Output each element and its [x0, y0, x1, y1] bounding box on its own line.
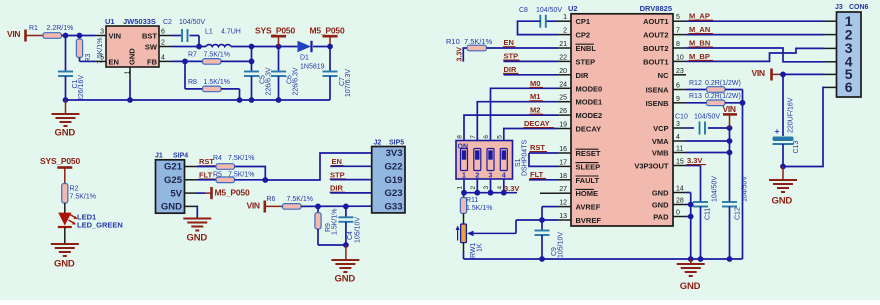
- svg-text:SIP5: SIP5: [389, 140, 404, 147]
- node junction VIN/C13: [780, 72, 786, 78]
- svg-text:17: 17: [559, 159, 567, 166]
- svg-text:1K: 1K: [477, 243, 484, 252]
- switch S1 slider 4: [500, 149, 507, 171]
- svg-text:CON6: CON6: [849, 4, 869, 11]
- node junction R3 tap: [77, 33, 83, 39]
- node junction R8 ground: [237, 97, 243, 103]
- power flag M5_P050 at J1 5V: [197, 192, 206, 194]
- svg-text:15: 15: [676, 159, 684, 166]
- wire sense resistors to ground: [742, 90, 744, 260]
- svg-text:FAULT: FAULT: [576, 176, 600, 185]
- svg-text:G19: G19: [385, 175, 403, 186]
- svg-text:VMB: VMB: [652, 149, 669, 158]
- svg-text:6: 6: [676, 83, 680, 90]
- svg-text:24: 24: [559, 81, 567, 88]
- potentiometer RW1 1K: [461, 224, 467, 243]
- svg-text:R12: R12: [689, 80, 702, 87]
- svg-text:3.3V: 3.3V: [687, 156, 702, 165]
- svg-text:G23: G23: [385, 188, 403, 199]
- svg-text:BVREF: BVREF: [576, 216, 602, 225]
- LED LED1 LED_GREEN: [58, 213, 71, 226]
- svg-text:18: 18: [559, 173, 567, 180]
- svg-text:AVREF: AVREF: [576, 203, 601, 212]
- svg-text:G21: G21: [164, 162, 183, 173]
- svg-text:GND: GND: [128, 48, 137, 65]
- svg-text:6: 6: [161, 29, 165, 36]
- ground symbol U2 area: [688, 256, 694, 262]
- wire R10 to ENBL: [487, 47, 559, 49]
- svg-text:19: 19: [559, 122, 567, 129]
- svg-text:FB: FB: [147, 57, 158, 66]
- resistor R9 1.5K/1%: [317, 206, 319, 212]
- svg-text:VCP: VCP: [653, 124, 668, 133]
- svg-text:BOUT1: BOUT1: [643, 57, 668, 66]
- wire pullup to J2 3V3: [265, 153, 371, 180]
- capacitor C11 104/50V: [693, 201, 708, 203]
- svg-text:226/6.3V: 226/6.3V: [293, 67, 300, 95]
- wire VMA: [686, 140, 730, 142]
- svg-text:M2: M2: [530, 106, 540, 115]
- svg-text:8: 8: [676, 41, 680, 48]
- svg-text:14: 14: [676, 186, 684, 193]
- wire R9/C4 ground link: [318, 244, 346, 246]
- wire MODE0 net from S1 pin6: [491, 88, 559, 140]
- svg-text:DRV8825: DRV8825: [640, 4, 672, 13]
- svg-text:EN: EN: [504, 38, 514, 47]
- svg-text:104/50V: 104/50V: [536, 7, 562, 14]
- wire U2 GND pins to rail: [686, 192, 691, 194]
- svg-text:DIR: DIR: [576, 71, 590, 80]
- svg-text:PAD: PAD: [653, 213, 669, 222]
- resistor R7 7.5K/1%: [159, 60, 172, 62]
- svg-text:ISENB: ISENB: [646, 99, 670, 108]
- svg-text:GND: GND: [680, 281, 701, 292]
- svg-text:27: 27: [559, 186, 567, 193]
- wire STP to STEP: [504, 60, 559, 62]
- svg-text:4: 4: [502, 173, 506, 180]
- node junction C13 ground: [780, 164, 786, 170]
- node junction C6 / SYS_P050: [276, 44, 282, 50]
- pin stubs J3: [825, 20, 837, 22]
- node junction U1 ground: [127, 97, 133, 103]
- wire VIN to J3 pin5: [783, 73, 825, 75]
- capacitor C7 107/6.3V: [329, 47, 331, 72]
- svg-text:C11: C11: [705, 208, 712, 220]
- svg-text:0.2R(1/2W): 0.2R(1/2W): [705, 80, 741, 87]
- wire U1 GND pin to ground rail: [129, 67, 131, 80]
- svg-text:8: 8: [457, 135, 464, 139]
- svg-text:DECAY: DECAY: [524, 119, 550, 128]
- svg-text:2: 2: [563, 28, 567, 35]
- svg-text:C13: C13: [793, 141, 800, 154]
- svg-text:R1: R1: [29, 25, 38, 32]
- svg-text:R5: R5: [213, 171, 222, 178]
- switch S1 DSHP04TS DIP-4: [456, 141, 513, 180]
- svg-text:CP2: CP2: [576, 31, 591, 40]
- wire J1 GND pin: [196, 206, 199, 217]
- svg-text:ISENA: ISENA: [646, 86, 670, 95]
- node junction FB/R8: [182, 59, 188, 65]
- svg-text:7: 7: [676, 28, 680, 35]
- svg-text:U1: U1: [105, 17, 115, 26]
- svg-text:M5_P050: M5_P050: [215, 188, 250, 198]
- svg-text:3: 3: [489, 173, 493, 180]
- wire AOUT1 to J3 pin1 / net M_AP: [686, 20, 825, 22]
- svg-text:CP1: CP1: [576, 17, 591, 26]
- svg-text:STP: STP: [330, 170, 345, 179]
- svg-text:0.2R(1/2W): 0.2R(1/2W): [705, 93, 741, 100]
- svg-text:ENBL: ENBL: [576, 44, 597, 53]
- svg-text:RESET: RESET: [576, 149, 601, 158]
- svg-text:5: 5: [100, 54, 104, 61]
- svg-text:11: 11: [676, 146, 683, 153]
- ground symbol J2 branch: [345, 245, 347, 260]
- svg-text:0: 0: [676, 210, 680, 217]
- ground symbol main left: [65, 100, 67, 114]
- svg-text:226/16V: 226/16V: [78, 75, 85, 101]
- wire MODE2 net from S1 pin8: [464, 115, 558, 140]
- wire DIR to DIR pin: [504, 74, 559, 76]
- svg-text:C4: C4: [347, 231, 354, 240]
- svg-text:MODE1: MODE1: [576, 98, 603, 107]
- svg-text:L1: L1: [205, 29, 213, 36]
- switch S1 slider 2: [474, 149, 481, 171]
- capacitor C13 220UF/16V polarized: [782, 74, 784, 136]
- svg-text:DSHP04TS: DSHP04TS: [522, 139, 529, 176]
- svg-text:2: 2: [470, 186, 477, 190]
- wire LED1 to ground: [64, 227, 66, 244]
- wire RST to RESET and SLEEP: [529, 152, 558, 154]
- svg-text:5V: 5V: [170, 188, 182, 199]
- svg-text:23: 23: [676, 68, 684, 75]
- svg-text:3.3V: 3.3V: [504, 184, 519, 193]
- svg-text:107/6.3V: 107/6.3V: [345, 69, 352, 97]
- svg-text:10: 10: [676, 54, 684, 61]
- svg-text:13: 13: [559, 213, 567, 220]
- svg-text:FLT: FLT: [530, 170, 544, 179]
- svg-text:M1: M1: [530, 92, 540, 101]
- svg-text:1N5819: 1N5819: [300, 64, 325, 71]
- svg-text:R2: R2: [70, 186, 79, 193]
- svg-text:GND: GND: [187, 233, 208, 244]
- svg-text:RST: RST: [530, 143, 545, 152]
- svg-text:7.5K/1%: 7.5K/1%: [228, 171, 254, 178]
- svg-text:DECAY: DECAY: [576, 125, 602, 134]
- resistor R12 0.2R(1/2W): [686, 89, 707, 91]
- svg-text:4: 4: [496, 186, 503, 190]
- wire D1 to M5 rail: [313, 46, 330, 48]
- resistor R11 1.5K/1%: [463, 193, 466, 198]
- wire DECAY net from S1 pin5: [504, 129, 558, 141]
- wire MODE1 net from S1 pin7: [477, 102, 558, 141]
- node junction M5/C7: [327, 44, 333, 50]
- svg-text:J3: J3: [835, 4, 843, 11]
- svg-text:105/10V: 105/10V: [355, 217, 362, 243]
- node junction R4/R5 pullup: [262, 177, 268, 183]
- svg-text:FLT: FLT: [199, 170, 213, 179]
- svg-text:SW: SW: [145, 43, 158, 52]
- svg-text:M_AP: M_AP: [689, 12, 710, 21]
- resistor R6 7.5K/1%: [283, 204, 302, 210]
- svg-text:DIR: DIR: [330, 184, 344, 193]
- svg-text:M_BN: M_BN: [689, 38, 710, 47]
- svg-text:R4: R4: [213, 155, 222, 162]
- svg-text:GND: GND: [54, 258, 75, 269]
- svg-text:4: 4: [676, 134, 680, 141]
- node junction R1/C1: [63, 33, 69, 39]
- capacitor C1 226/16V: [65, 36, 67, 72]
- svg-text:220UF/16V: 220UF/16V: [788, 97, 795, 133]
- svg-text:VIN: VIN: [723, 104, 736, 114]
- svg-text:DIR: DIR: [504, 65, 518, 74]
- svg-text:V3P3OUT: V3P3OUT: [634, 162, 669, 171]
- wire VMB: [686, 152, 730, 154]
- svg-text:1.5K/1%: 1.5K/1%: [466, 205, 492, 212]
- wire ground rail left: [66, 99, 331, 101]
- svg-text:M_BP: M_BP: [689, 52, 710, 61]
- svg-text:SLEEP: SLEEP: [576, 162, 601, 171]
- svg-text:EN: EN: [332, 157, 342, 166]
- svg-text:J2: J2: [374, 140, 382, 147]
- svg-text:6: 6: [845, 79, 853, 95]
- svg-text:104/50V: 104/50V: [712, 176, 719, 202]
- svg-text:1: 1: [462, 173, 466, 180]
- svg-text:BOUT2: BOUT2: [643, 44, 668, 53]
- svg-text:22: 22: [559, 54, 567, 61]
- svg-text:105/10V: 105/10V: [558, 232, 565, 258]
- svg-text:7.5K/1%: 7.5K/1%: [70, 194, 96, 201]
- svg-text:U2: U2: [568, 4, 578, 13]
- node junction R9: [315, 204, 321, 210]
- svg-text:4.7UH: 4.7UH: [221, 29, 241, 36]
- pin stubs J1: [185, 166, 197, 168]
- wire AOUT2 to J3 pin2 / net M_AN: [686, 34, 825, 36]
- svg-text:26: 26: [559, 108, 567, 115]
- wire HOME stub: [540, 192, 558, 194]
- svg-text:STEP: STEP: [576, 57, 596, 66]
- svg-text:104/50V: 104/50V: [179, 19, 205, 26]
- ground symbol LED: [51, 243, 79, 245]
- node junction C2/SW: [196, 44, 202, 50]
- svg-text:6: 6: [483, 135, 490, 139]
- svg-text:104/50V: 104/50V: [742, 176, 749, 202]
- wire R2 to LED1: [64, 203, 66, 213]
- node junction C4 ground: [343, 242, 349, 248]
- svg-text:NC: NC: [658, 71, 669, 80]
- svg-text:D1: D1: [300, 55, 309, 62]
- svg-text:GND: GND: [772, 195, 793, 206]
- svg-text:5: 5: [676, 14, 680, 21]
- wire VIN rail to VMA VMB C12: [729, 128, 731, 202]
- diode D1 1N5819: [298, 41, 312, 52]
- svg-text:GND: GND: [652, 201, 669, 210]
- capacitor C12 104/50V: [722, 201, 737, 203]
- resistor R2 7.5K/1%: [62, 184, 68, 204]
- resistor R3 7.5K/1%: [79, 36, 81, 40]
- capacitor C6 226/6.3V: [278, 47, 280, 72]
- wire R3 to U1 EN: [80, 60, 96, 62]
- svg-text:GND: GND: [55, 128, 76, 139]
- svg-text:GND: GND: [335, 274, 356, 285]
- svg-text:4: 4: [161, 54, 165, 61]
- wire AVREF to vref node: [542, 206, 558, 208]
- svg-text:JW5033S: JW5033S: [123, 17, 156, 26]
- node junction C5: [249, 44, 255, 50]
- svg-text:104/50V: 104/50V: [694, 113, 720, 120]
- capacitor C4 105/10V: [345, 206, 347, 217]
- wire BOUT2 to J3 pin4 / net M_BN: [686, 48, 825, 62]
- svg-text:R11: R11: [466, 197, 478, 204]
- wire BVREF: [516, 219, 558, 221]
- svg-text:3: 3: [483, 186, 490, 190]
- svg-text:AOUT1: AOUT1: [643, 17, 668, 26]
- capacitor C5 226/6.3V: [251, 47, 253, 72]
- node junction VCP/VIN: [727, 125, 733, 131]
- wire bottom ground rail: [464, 258, 743, 260]
- node junction R7 to VOUT: [249, 59, 255, 65]
- svg-text:VIN: VIN: [752, 68, 765, 78]
- resistor R8 1.5K/1%: [184, 61, 186, 89]
- wire BOUT1 to J3 pin3 / net M_BP: [686, 48, 825, 61]
- svg-text:GND: GND: [161, 202, 182, 213]
- svg-text:C2: C2: [163, 19, 172, 26]
- svg-text:C8: C8: [519, 7, 528, 14]
- svg-text:R6: R6: [267, 196, 276, 203]
- svg-text:MODE0: MODE0: [576, 84, 603, 93]
- svg-text:1: 1: [563, 14, 567, 21]
- svg-text:3: 3: [676, 121, 680, 128]
- svg-text:G33: G33: [385, 201, 403, 212]
- svg-text:7.5K/1%: 7.5K/1%: [287, 196, 313, 203]
- wire FLT to FAULT: [529, 179, 558, 181]
- svg-text:R13: R13: [689, 93, 702, 100]
- svg-text:C12: C12: [735, 207, 742, 220]
- wire S1 common rail 3.3V: [463, 179, 465, 193]
- svg-text:1.5K/1%: 1.5K/1%: [204, 79, 230, 86]
- svg-text:VMA: VMA: [652, 137, 669, 146]
- svg-text:VIN: VIN: [109, 32, 122, 41]
- svg-text:MODE2: MODE2: [576, 111, 603, 120]
- svg-text:20: 20: [559, 68, 567, 75]
- wire V3P3OUT to C11: [686, 165, 701, 167]
- node junction C4: [343, 204, 349, 210]
- svg-text:28: 28: [676, 198, 684, 205]
- svg-text:1.5K/1%: 1.5K/1%: [332, 209, 339, 235]
- resistor R4 7.5K/1%: [197, 166, 217, 168]
- wire J3 pin6 to C13 ground: [783, 87, 825, 166]
- svg-text:7.5K/1%: 7.5K/1%: [204, 51, 230, 58]
- svg-text:STP: STP: [504, 51, 519, 60]
- svg-text:3.3V: 3.3V: [457, 47, 464, 62]
- node junction ISENA/ISENB: [740, 100, 746, 106]
- node junction AVREF/BVREF: [539, 217, 545, 223]
- svg-text:21: 21: [559, 41, 567, 48]
- svg-text:R7: R7: [188, 51, 197, 58]
- svg-text:7: 7: [470, 135, 477, 139]
- wire R4 to 3V3 node: [235, 167, 266, 181]
- wire R6 to J2 G33: [301, 205, 372, 207]
- svg-text:HOME: HOME: [576, 189, 599, 198]
- wire VIN to R1: [27, 35, 44, 37]
- svg-text:16: 16: [559, 146, 567, 153]
- svg-text:GND: GND: [652, 189, 669, 198]
- svg-text:M5_P050: M5_P050: [310, 25, 345, 35]
- svg-text:5: 5: [496, 135, 503, 139]
- svg-text:1: 1: [457, 186, 464, 190]
- svg-text:LED_GREEN: LED_GREEN: [77, 221, 123, 230]
- svg-text:SIP4: SIP4: [173, 153, 188, 160]
- capacitor C9 105/10V: [541, 220, 543, 231]
- wire L1 to output rail: [231, 46, 298, 48]
- svg-text:VIN: VIN: [247, 201, 260, 211]
- resistor R1 2.2R/1%: [43, 33, 62, 39]
- svg-text:7.5K/1%: 7.5K/1%: [228, 155, 254, 162]
- svg-text:J1: J1: [155, 153, 163, 160]
- ground symbol right: [782, 167, 784, 180]
- svg-text:3: 3: [100, 29, 104, 36]
- svg-text:AOUT2: AOUT2: [643, 31, 668, 40]
- svg-text:+: +: [775, 126, 780, 136]
- svg-text:3V3: 3V3: [386, 148, 403, 159]
- inductor L1 4.7UH: [206, 45, 231, 47]
- svg-text:SYS_P050: SYS_P050: [255, 25, 295, 35]
- op-amp U2 DRV8825 stepper driver: [571, 14, 673, 226]
- switch S1 slider 1: [461, 149, 468, 171]
- svg-text:G25: G25: [164, 175, 183, 186]
- svg-text:12: 12: [559, 200, 567, 207]
- op-amp U1 JW5033S regulator: [106, 26, 159, 67]
- node junction C1 ground: [63, 97, 69, 103]
- svg-text:M_AN: M_AN: [689, 25, 710, 34]
- switch S1 slider 3: [487, 149, 494, 171]
- svg-text:2: 2: [161, 40, 165, 47]
- wire U1 SW output: [159, 46, 172, 48]
- wire R1 to U1 VIN: [62, 35, 96, 37]
- svg-text:EN: EN: [109, 57, 119, 66]
- resistor R13 0.2R(1/2W): [686, 102, 707, 104]
- svg-text:R8: R8: [188, 79, 197, 86]
- svg-text:BST: BST: [142, 32, 157, 41]
- capacitor C2 104/50V bootstrap: [159, 35, 172, 37]
- svg-text:C10: C10: [675, 113, 688, 120]
- svg-text:VIN: VIN: [7, 29, 20, 39]
- ground symbol J1: [183, 218, 211, 220]
- svg-text:9: 9: [676, 96, 680, 103]
- svg-text:M0: M0: [530, 79, 540, 88]
- svg-text:2: 2: [475, 173, 479, 180]
- svg-text:2.2R/1%: 2.2R/1%: [47, 25, 74, 32]
- svg-text:R10: R10: [446, 37, 460, 46]
- resistor R5 7.5K/1%: [197, 179, 217, 181]
- svg-text:25: 25: [559, 95, 567, 102]
- svg-text:SYS_P050: SYS_P050: [40, 156, 80, 166]
- svg-text:G22: G22: [385, 162, 403, 173]
